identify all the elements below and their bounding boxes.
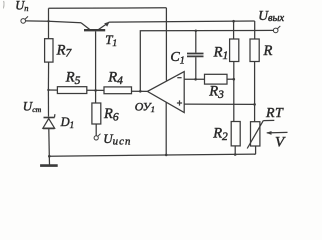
resistor R4	[104, 87, 132, 94]
node Uст junction dot	[47, 89, 49, 91]
wire inverting input to R3	[184, 78, 204, 80]
wire R5 to R4	[87, 89, 104, 91]
svg-text:R4: R4	[107, 70, 123, 87]
svg-text:R2: R2	[212, 125, 228, 142]
svg-text:RT: RT	[265, 106, 284, 121]
terminal Uп	[21, 16, 28, 23]
svg-text:D1: D1	[60, 115, 75, 130]
wire D1 anode to ground rail	[48, 129, 51, 156]
wire non-inverting input to bridge right midpoint	[184, 103, 254, 105]
wire bottom rail	[49, 154, 255, 156]
airflow arrow V	[266, 131, 287, 135]
svg-text:Uст: Uст	[23, 98, 42, 113]
wire T1 emitter to bridge top	[109, 21, 255, 22]
thermistor RT	[247, 120, 274, 148]
wire Uп junction to T1 collector	[49, 21, 82, 23]
node Uисп label	[103, 131, 131, 148]
svg-text:Uп: Uп	[15, 0, 28, 13]
node Uп label	[15, 0, 28, 13]
node Uвых label	[258, 8, 284, 24]
terminal Uвых	[273, 26, 280, 33]
svg-text:T1: T1	[105, 32, 117, 49]
resistor R6	[92, 103, 101, 124]
resistor R7	[45, 39, 53, 62]
node bridge left midpoint dot	[233, 78, 236, 81]
svg-text:R6: R6	[103, 106, 119, 123]
svg-text:Uвых: Uвых	[258, 8, 284, 24]
node junction dot Uп/R7	[47, 20, 49, 22]
node ground rail / V- junction dot	[165, 154, 168, 157]
node C1/output-line junction dot	[195, 30, 198, 33]
resistor R	[250, 39, 259, 62]
wire R4 to op-amp output	[132, 90, 148, 92]
terminal Uисп	[94, 134, 100, 140]
wire faint scan artifact top-left edge	[2, 1, 5, 9]
wire bridge top corner into R	[254, 21, 256, 39]
svg-text:R7: R7	[56, 42, 73, 59]
wire output branch up to Uвых line	[140, 30, 273, 91]
wire R7 bottom to Uст node	[47, 62, 49, 90]
node ground rail left junction dot	[48, 155, 51, 158]
node R4/C1-branch junction dot	[139, 90, 142, 93]
wire R3 to bridge left midpoint	[227, 78, 234, 80]
svg-text:V: V	[275, 135, 286, 151]
node Uст label	[23, 98, 42, 113]
resistor R3	[205, 74, 228, 84]
node bridge right midpoint dot	[253, 103, 256, 106]
svg-text:R: R	[263, 43, 273, 59]
wire R6 to terminal	[95, 124, 97, 136]
wire op-amp V+ supply from top rail	[165, 8, 167, 81]
wire top rail (Uп to op-amp V+)	[49, 7, 167, 10]
ground	[40, 156, 58, 165]
wire bridge top to R1	[233, 21, 235, 39]
resistor R2	[231, 122, 240, 146]
svg-text:R1: R1	[213, 45, 229, 62]
diode D1 (zener)	[43, 114, 55, 128]
wire R1 bottom to R2 top	[233, 62, 235, 122]
node C1/inverting input junction dot	[194, 78, 197, 81]
wire R bottom to RT top	[254, 62, 256, 122]
svg-text:C1: C1	[170, 50, 184, 66]
pin plus sign	[177, 100, 182, 105]
capacitor C1	[187, 31, 204, 80]
transistor Q1 (T1)	[81, 22, 110, 31]
wire Uст node to R5	[48, 89, 57, 91]
svg-text:Uисп: Uисп	[103, 131, 131, 148]
wire T1 base vertical	[95, 31, 97, 103]
node junction dot emitter wire / R1	[232, 20, 235, 23]
svg-text:ОУ1: ОУ1	[135, 99, 155, 114]
wire R2 bottom to rail	[234, 146, 236, 155]
node rail/R2 junction dot	[234, 153, 237, 156]
resistor R5	[57, 87, 86, 94]
wire Uп terminal to left column	[26, 20, 49, 22]
svg-text:R5: R5	[65, 70, 81, 87]
svg-text:R3: R3	[208, 84, 224, 101]
wire Uст node to D1 cathode	[47, 90, 49, 117]
wire left column vertical Uп to R7	[48, 8, 50, 38]
wire RT bottom to rail corner	[255, 146, 257, 154]
wire op-amp V- supply to ground rail	[165, 102, 167, 155]
resistor R1	[230, 39, 239, 62]
node base/R5/R4/R6 junction dot	[94, 89, 97, 92]
pin minus sign	[177, 77, 181, 79]
op-amp U1 (ОУ1)	[147, 72, 184, 113]
